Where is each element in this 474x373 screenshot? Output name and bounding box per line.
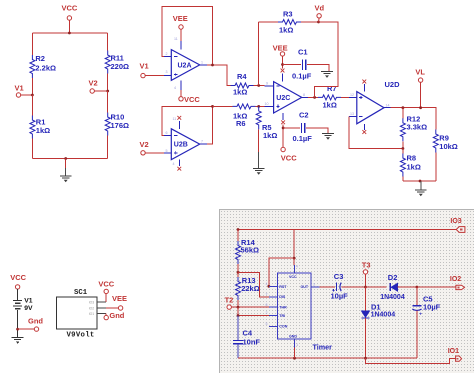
node V2 (bridge tap) <box>89 79 110 94</box>
resistor R14 56kΩ <box>236 230 260 273</box>
node VCC (battery) <box>10 273 26 289</box>
wire timer GND drop <box>294 348 296 359</box>
junction top rail <box>68 32 71 35</box>
wire V1 node to R1 <box>31 95 33 116</box>
svg-text:1kΩ: 1kΩ <box>233 88 247 97</box>
svg-text:U2A: U2A <box>178 62 192 69</box>
wire Vd node to U2C output (routed) <box>315 22 338 97</box>
svg-text:R7: R7 <box>327 84 337 93</box>
svg-text:D2: D2 <box>388 273 398 282</box>
resistor R9 10kΩ <box>433 130 458 182</box>
ground (bridge) <box>60 176 72 182</box>
svg-text:6: 6 <box>166 131 168 135</box>
wire RST/VCC link <box>269 258 294 286</box>
wire V1 to U2A + input <box>145 75 164 77</box>
node VL <box>415 68 425 109</box>
grid panel (timer subsheet background) <box>219 209 474 373</box>
wire to ground <box>420 181 422 189</box>
wire R1 to bottom rail <box>31 139 33 159</box>
svg-text:U2C: U2C <box>276 95 290 102</box>
svg-text:14: 14 <box>386 103 390 107</box>
svg-text:VCC: VCC <box>289 275 297 279</box>
svg-text:1: 1 <box>296 343 298 347</box>
node VCC (U2A) <box>179 90 201 104</box>
wire to IO1 <box>366 358 456 363</box>
svg-text:3: 3 <box>313 283 315 287</box>
svg-text:V1: V1 <box>140 62 149 71</box>
node V2 (buffer input) <box>140 140 149 155</box>
svg-text:4: 4 <box>173 162 175 166</box>
svg-text:6: 6 <box>266 303 268 307</box>
svg-text:4: 4 <box>174 86 176 90</box>
no-connect X (U2B top) <box>177 116 181 120</box>
junction R12 top <box>402 106 405 109</box>
subcircuit SC1 V9Volt <box>56 289 97 340</box>
svg-text:Timer: Timer <box>313 342 333 351</box>
wire R11 to V2 node <box>107 74 109 92</box>
svg-text:VCC: VCC <box>184 95 200 104</box>
svg-text:8: 8 <box>303 93 305 97</box>
junction R14/R13/DIS <box>237 271 240 274</box>
svg-text:VCC: VCC <box>62 4 78 13</box>
svg-text:10nF: 10nF <box>243 338 261 347</box>
svg-text:IO3: IO3 <box>450 218 461 225</box>
svg-text:1kΩ: 1kΩ <box>36 126 50 135</box>
wire V2 to U2B + input <box>145 152 164 154</box>
resistor R4 1kΩ <box>231 72 254 97</box>
svg-text:1kΩ: 1kΩ <box>407 162 421 171</box>
svg-text:C4: C4 <box>243 328 253 337</box>
wire R3 right to Vd node <box>301 21 319 23</box>
svg-text:22kΩ: 22kΩ <box>241 284 260 293</box>
svg-text:D1: D1 <box>371 303 381 312</box>
svg-text:176Ω: 176Ω <box>111 121 130 130</box>
wire R3 left <box>259 21 278 23</box>
connector IO1 <box>448 348 462 361</box>
svg-text:R3: R3 <box>283 10 293 19</box>
ground (C1) <box>321 72 333 78</box>
pin VCC (SC1) <box>97 279 115 302</box>
svg-text:C1: C1 <box>298 48 308 57</box>
node T3 <box>362 261 371 289</box>
555 timer U3 <box>266 265 333 352</box>
diode D1 1N4004 <box>361 287 395 358</box>
svg-text:IO1: IO1 <box>448 348 459 355</box>
wire U2A feedback loop <box>162 7 212 65</box>
svg-text:4: 4 <box>266 282 268 286</box>
no-connect X (U2C VEE pin) <box>281 69 285 73</box>
svg-text:1N4004: 1N4004 <box>380 294 405 301</box>
svg-text:R6: R6 <box>236 119 246 128</box>
junction ground tap <box>419 180 422 183</box>
resistor R12 3.3kΩ <box>400 108 427 149</box>
svg-text:T3: T3 <box>362 261 371 270</box>
resistor R7 1kΩ <box>318 84 341 110</box>
wire U2B feedback loop <box>162 106 212 144</box>
svg-text:IO1: IO1 <box>89 312 95 316</box>
wire R4 to U2C - input <box>254 85 265 87</box>
svg-text:VL: VL <box>415 68 425 77</box>
junction R6 / R5 <box>257 105 260 108</box>
node VCC (bridge) <box>62 4 78 21</box>
node VCC (U2C) <box>281 147 297 162</box>
wire V2 node to R10 <box>107 91 109 113</box>
wire to ground <box>65 159 67 169</box>
svg-text:V9Volt: V9Volt <box>67 332 95 340</box>
svg-text:IO2: IO2 <box>450 276 461 283</box>
pin VEE (SC1) <box>97 294 127 310</box>
svg-text:GND: GND <box>289 335 297 339</box>
svg-text:2: 2 <box>166 52 168 56</box>
ground (C2) <box>322 133 334 139</box>
wire VCC feed riser <box>293 230 295 259</box>
battery V1 9V <box>13 289 33 337</box>
svg-text:VCC: VCC <box>10 273 26 282</box>
capacitor C3 10µF <box>331 272 366 301</box>
no-connect X (U2C VCC pin) <box>281 120 285 124</box>
svg-text:RST: RST <box>279 285 287 289</box>
svg-text:V1: V1 <box>24 298 33 305</box>
svg-text:VEE: VEE <box>273 44 288 53</box>
wire R6 to U2C + input <box>256 105 265 107</box>
wire right branch upper <box>107 33 109 51</box>
svg-text:VEE: VEE <box>173 14 188 23</box>
svg-text:R9: R9 <box>439 133 449 142</box>
svg-text:DIS: DIS <box>279 295 286 299</box>
svg-text:4: 4 <box>296 265 298 269</box>
svg-text:11: 11 <box>173 117 177 121</box>
svg-text:1kΩ: 1kΩ <box>263 131 277 140</box>
node V1 (bridge tap) <box>15 84 34 98</box>
svg-text:5: 5 <box>166 149 168 153</box>
svg-text:IO3: IO3 <box>89 300 95 304</box>
svg-text:VCC: VCC <box>98 279 114 288</box>
no-connect X (U2D top) <box>362 80 366 84</box>
connector IO2 <box>450 276 465 290</box>
svg-text:0.1µF: 0.1µF <box>292 72 312 81</box>
no-connect X (U2B bottom) <box>177 167 181 171</box>
svg-text:10kΩ: 10kΩ <box>439 142 458 151</box>
wire VCC pin (U2C) <box>282 125 284 148</box>
node VEE (U2C) <box>273 44 288 69</box>
svg-text:7: 7 <box>266 293 268 297</box>
svg-text:IO2: IO2 <box>89 306 95 310</box>
junction U2C output <box>313 96 316 99</box>
svg-text:7: 7 <box>201 140 203 144</box>
op-amp U2C <box>265 74 308 120</box>
node T2 <box>225 295 271 309</box>
junction R12/R8/feedback <box>402 147 405 150</box>
wire top rail <box>32 32 107 34</box>
junction C1 tap <box>281 63 284 66</box>
resistor R1 1kΩ <box>30 116 50 139</box>
svg-text:THR: THR <box>279 306 287 310</box>
svg-text:10µF: 10µF <box>331 292 349 301</box>
svg-text:Gnd: Gnd <box>109 311 124 320</box>
resistor R10 176Ω <box>105 113 129 136</box>
resistor R13 22kΩ <box>236 272 260 307</box>
svg-text:Gnd: Gnd <box>28 316 43 325</box>
svg-text:9V: 9V <box>24 305 33 312</box>
svg-text:C3: C3 <box>334 272 344 281</box>
wire THR to TRI <box>237 307 239 315</box>
resistor R11 220Ω <box>105 51 129 74</box>
wire U2D feedback <box>349 116 403 148</box>
svg-text:3.3kΩ: 3.3kΩ <box>407 123 428 132</box>
svg-text:1N4004: 1N4004 <box>371 312 396 319</box>
resistor R2 2.2kΩ <box>30 54 56 78</box>
junction R4 / R3 <box>257 84 260 87</box>
wire OUT to C3 <box>319 286 335 288</box>
wire bottom rail <box>32 158 107 160</box>
junction C2 tap <box>282 127 285 130</box>
junction C5 top <box>416 286 419 289</box>
junction RST <box>267 285 270 288</box>
svg-text:3: 3 <box>166 70 168 74</box>
svg-text:VCC: VCC <box>281 154 297 163</box>
junction R14 top <box>237 228 240 231</box>
wire timer VCC pin drop <box>293 258 295 265</box>
wire R2 to V1 node <box>31 78 33 95</box>
svg-text:C2: C2 <box>299 111 309 120</box>
svg-text:2.2kΩ: 2.2kΩ <box>35 64 56 73</box>
capacitor C5 10µF <box>412 287 440 358</box>
op-amp U2A <box>164 37 207 90</box>
wire R3 feedback riser <box>258 22 260 86</box>
node Gnd (battery) <box>16 316 43 331</box>
junction timer GND <box>293 357 296 360</box>
svg-text:OUT: OUT <box>301 285 309 289</box>
wire ground rail <box>238 357 417 359</box>
svg-text:11: 11 <box>174 37 178 41</box>
connector IO3 <box>450 218 465 232</box>
svg-text:9: 9 <box>266 82 268 86</box>
node V1 (buffer input) <box>140 62 149 78</box>
svg-text:U2D: U2D <box>385 80 401 89</box>
junction Vd <box>317 21 320 24</box>
resistor R8 1kΩ <box>400 149 420 182</box>
svg-text:V2: V2 <box>140 140 149 149</box>
svg-text:T2: T2 <box>225 295 234 304</box>
junction TRI/C4 <box>237 314 240 317</box>
resistor R3 1kΩ <box>278 10 301 35</box>
svg-text:10: 10 <box>265 102 269 106</box>
svg-text:56kΩ: 56kΩ <box>241 246 260 255</box>
no-connect X (U2D bottom) <box>362 130 366 134</box>
svg-text:Vd: Vd <box>315 4 325 13</box>
wire R5 to ground <box>258 129 260 152</box>
node VEE (U2A) <box>173 14 188 41</box>
resistor R6 1kΩ <box>233 104 256 128</box>
svg-text:VEE: VEE <box>112 294 127 303</box>
junction timer VCC pin <box>293 257 296 260</box>
capacitor C4 10nF <box>233 316 261 359</box>
svg-text:10µF: 10µF <box>423 303 441 312</box>
wire TRI <box>238 315 271 317</box>
svg-text:0.1µF: 0.1µF <box>293 134 313 143</box>
svg-text:220Ω: 220Ω <box>111 62 130 71</box>
op-amp U2B <box>164 117 207 166</box>
wire to IO2 <box>417 286 456 288</box>
wire bottom (R8/R9) <box>403 180 436 182</box>
wire DIS connection <box>238 272 269 296</box>
wire left branch upper <box>31 33 33 55</box>
junction bottom rail <box>64 157 67 160</box>
diode D2 1N4004 <box>380 273 417 301</box>
svg-text:CON: CON <box>279 325 287 329</box>
svg-text:1kΩ: 1kΩ <box>323 101 337 110</box>
capacitor C1 0.1µF <box>283 48 330 81</box>
svg-text:TRI: TRI <box>279 314 285 318</box>
svg-text:2: 2 <box>266 311 268 315</box>
ground (battery) <box>12 337 24 344</box>
svg-text:U2B: U2B <box>174 142 188 149</box>
op-amp U2D <box>349 80 400 130</box>
svg-text:1kΩ: 1kΩ <box>279 26 293 35</box>
svg-text:R8: R8 <box>407 154 417 163</box>
wire R4 left <box>213 105 233 107</box>
wire U2A output <box>207 65 231 86</box>
wire U2D output <box>391 108 436 130</box>
wire U2C output <box>308 96 318 98</box>
ground (R5) <box>253 168 265 174</box>
svg-text:5: 5 <box>266 322 268 326</box>
wire VCC rail to IO3 <box>238 229 456 231</box>
wire VCC to top rail <box>68 20 70 33</box>
wire R10 to bottom rail <box>107 136 109 159</box>
capacitor C2 0.1µF <box>283 111 328 143</box>
pin Gnd (SC1) <box>97 311 125 320</box>
junction D1 bottom <box>364 357 367 360</box>
svg-text:SC1: SC1 <box>74 289 88 297</box>
resistor R5 1kΩ <box>256 106 277 140</box>
svg-text:R2: R2 <box>35 54 45 63</box>
svg-text:1: 1 <box>201 61 203 65</box>
junction U2B feedback / R6 <box>211 105 214 108</box>
svg-text:R4: R4 <box>237 72 247 81</box>
wire R7 to U2D + input <box>341 96 349 98</box>
node Vd <box>315 4 325 22</box>
svg-text:V1: V1 <box>15 84 24 93</box>
ground (R8/R9) <box>415 190 427 196</box>
svg-text:13: 13 <box>350 112 354 116</box>
junction U2A output <box>211 64 214 67</box>
svg-text:V2: V2 <box>89 79 98 88</box>
svg-text:12: 12 <box>350 93 354 97</box>
wire T3 to D2 <box>366 286 387 288</box>
